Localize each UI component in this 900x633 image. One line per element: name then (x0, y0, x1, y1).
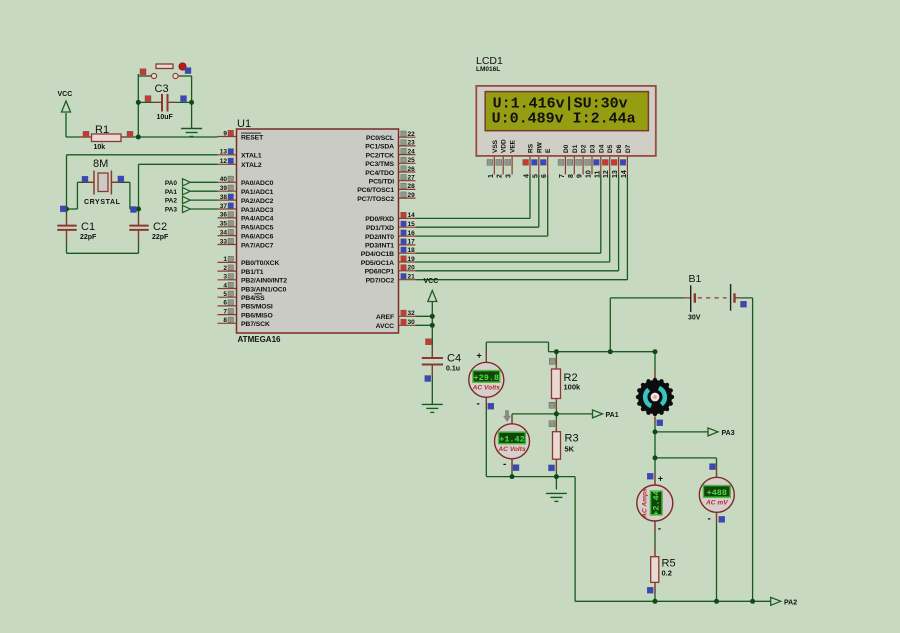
svg-text:33: 33 (220, 238, 228, 245)
svg-text:35: 35 (220, 221, 228, 228)
svg-text:24: 24 (408, 148, 416, 155)
svg-text:13: 13 (612, 170, 619, 178)
svg-text:D4: D4 (598, 144, 605, 153)
svg-text:PA3/ADC3: PA3/ADC3 (241, 207, 274, 214)
svg-text:LM016L: LM016L (476, 66, 500, 73)
svg-text:C1: C1 (81, 221, 95, 233)
svg-text:PC2/TCK: PC2/TCK (366, 152, 395, 159)
svg-text:0.1u: 0.1u (446, 366, 460, 373)
svg-text:19: 19 (408, 256, 416, 263)
svg-text:37: 37 (220, 203, 228, 210)
svg-text:PB0/T0/XCK: PB0/T0/XCK (241, 260, 279, 267)
svg-text:VCC: VCC (424, 278, 439, 285)
svg-text:+2.44: +2.44 (652, 490, 662, 516)
svg-text:PC0/SCL: PC0/SCL (366, 135, 394, 142)
svg-text:PC4/TDO: PC4/TDO (365, 170, 394, 177)
svg-text:14: 14 (408, 212, 416, 219)
svg-text:D0: D0 (563, 144, 570, 153)
svg-text:PA3: PA3 (722, 430, 735, 437)
svg-text:PB2/AIN0/INT2: PB2/AIN0/INT2 (241, 278, 287, 285)
svg-text:D2: D2 (581, 144, 588, 153)
svg-text:17: 17 (408, 239, 416, 246)
svg-text:22: 22 (408, 131, 416, 138)
svg-text:23: 23 (408, 140, 416, 147)
svg-text:10: 10 (586, 170, 593, 178)
svg-text:PB7/SCK: PB7/SCK (241, 321, 270, 328)
svg-text:PC3/TMS: PC3/TMS (365, 161, 394, 168)
svg-text:PA4/ADC4: PA4/ADC4 (241, 216, 274, 223)
svg-text:VSS: VSS (492, 139, 499, 153)
svg-text:9: 9 (577, 174, 584, 178)
svg-text:RW: RW (536, 141, 543, 153)
svg-text:VEE: VEE (510, 139, 517, 153)
svg-text:18: 18 (408, 247, 416, 254)
svg-text:PC7/TOSC2: PC7/TOSC2 (357, 196, 394, 203)
svg-text:4: 4 (524, 174, 531, 178)
svg-text:PB4/SS: PB4/SS (241, 295, 265, 302)
svg-text:1: 1 (223, 256, 227, 263)
svg-text:+: + (658, 474, 663, 484)
svg-text:AVCC: AVCC (376, 323, 395, 330)
svg-text:+488: +488 (707, 488, 727, 498)
svg-text:15: 15 (408, 221, 416, 228)
svg-text:8M: 8M (93, 158, 108, 170)
svg-text:D1: D1 (572, 144, 579, 153)
svg-text:3: 3 (223, 274, 227, 281)
svg-text:R3: R3 (565, 433, 579, 445)
svg-text:38: 38 (220, 194, 228, 201)
svg-text:-: - (503, 459, 506, 470)
svg-text:2: 2 (497, 174, 504, 178)
svg-text:PA5/ADC5: PA5/ADC5 (241, 225, 274, 232)
svg-text:PB3/AIN1/OC0: PB3/AIN1/OC0 (241, 286, 287, 293)
svg-text:0.2: 0.2 (662, 569, 672, 578)
svg-text:34: 34 (220, 229, 228, 236)
svg-text:C3: C3 (155, 83, 169, 95)
svg-text:2: 2 (223, 265, 227, 272)
svg-text:+29.8: +29.8 (474, 373, 500, 383)
svg-text:AREF: AREF (376, 314, 394, 321)
svg-text:PA1/ADC1: PA1/ADC1 (241, 189, 274, 196)
svg-text:7: 7 (559, 174, 566, 178)
svg-text:PA0/ADC0: PA0/ADC0 (241, 180, 274, 187)
svg-text:U1: U1 (237, 118, 251, 130)
svg-text:8: 8 (223, 317, 227, 324)
svg-text:5K: 5K (565, 445, 575, 454)
svg-text:VDD: VDD (501, 139, 508, 153)
svg-text:PC5/TDI: PC5/TDI (369, 179, 395, 186)
svg-text:20: 20 (408, 265, 416, 272)
svg-text:8: 8 (568, 174, 575, 178)
svg-text:26: 26 (408, 166, 416, 173)
svg-text:PD4/OC1B: PD4/OC1B (361, 251, 394, 258)
svg-text:PA2/ADC2: PA2/ADC2 (241, 198, 274, 205)
svg-text:XTAL1: XTAL1 (241, 153, 262, 160)
svg-text:PB6/MISO: PB6/MISO (241, 312, 273, 319)
svg-text:-: - (658, 524, 661, 535)
svg-text:22pF: 22pF (80, 234, 97, 241)
svg-text:PA2: PA2 (165, 198, 178, 205)
svg-text:PB1/T1: PB1/T1 (241, 269, 264, 276)
svg-text:AC Volts: AC Volts (472, 384, 501, 391)
svg-text:PD7/OC2: PD7/OC2 (366, 278, 395, 285)
svg-text:5: 5 (532, 174, 539, 178)
svg-text:39: 39 (220, 185, 228, 192)
svg-text:PD6/ICP1: PD6/ICP1 (365, 269, 395, 276)
svg-text:13: 13 (220, 149, 228, 156)
svg-text:7: 7 (223, 308, 227, 315)
svg-text:11: 11 (594, 170, 601, 178)
svg-text:R1: R1 (95, 124, 109, 136)
svg-text:+: + (477, 351, 482, 361)
svg-text:5: 5 (223, 291, 227, 298)
svg-text:C2: C2 (153, 221, 167, 233)
svg-text:VCC: VCC (58, 91, 73, 98)
svg-text:6: 6 (541, 174, 548, 178)
svg-text:27: 27 (408, 175, 416, 182)
svg-text:40: 40 (220, 176, 228, 183)
svg-text:PA1: PA1 (165, 189, 178, 196)
svg-text:6: 6 (223, 300, 227, 307)
svg-text:PA7/ADC7: PA7/ADC7 (241, 242, 274, 249)
svg-text:E: E (545, 148, 552, 153)
svg-text:PA6/ADC6: PA6/ADC6 (241, 233, 274, 240)
svg-text:16: 16 (408, 230, 416, 237)
svg-text:PC6/TOSC1: PC6/TOSC1 (357, 187, 394, 194)
svg-text:PD2/INT0: PD2/INT0 (365, 234, 394, 241)
svg-text:PD3/INT1: PD3/INT1 (365, 243, 394, 250)
svg-text:28: 28 (408, 183, 416, 190)
svg-text:PC1/SDA: PC1/SDA (365, 144, 394, 151)
svg-text:4: 4 (223, 282, 227, 289)
svg-text:32: 32 (408, 310, 416, 317)
svg-text:14: 14 (621, 170, 628, 178)
svg-text:10uF: 10uF (157, 114, 174, 121)
svg-text:21: 21 (408, 274, 416, 281)
svg-text:ATMEGA16: ATMEGA16 (238, 335, 282, 344)
svg-text:+1.42: +1.42 (499, 435, 525, 445)
svg-text:PA3: PA3 (165, 207, 178, 214)
svg-text:AC mV: AC mV (705, 499, 728, 506)
svg-text:RS: RS (528, 143, 535, 153)
svg-text:D6: D6 (616, 144, 623, 153)
svg-text:36: 36 (220, 212, 228, 219)
svg-text:CRYSTAL: CRYSTAL (84, 199, 121, 206)
svg-text:-: - (708, 514, 711, 525)
svg-text:12: 12 (603, 170, 610, 178)
svg-text:30: 30 (408, 319, 416, 326)
svg-text:PA2: PA2 (784, 599, 797, 606)
svg-text:22pF: 22pF (152, 234, 169, 241)
svg-text:PA1: PA1 (606, 412, 619, 419)
svg-text:25: 25 (408, 157, 416, 164)
svg-text:AC Amps: AC Amps (642, 488, 649, 519)
svg-text:PA0: PA0 (165, 180, 178, 187)
svg-text:B1: B1 (689, 273, 702, 285)
svg-text:100k: 100k (564, 383, 582, 392)
svg-text:PD5/OC1A: PD5/OC1A (361, 260, 394, 267)
svg-text:9: 9 (223, 130, 227, 137)
svg-text:XTAL2: XTAL2 (241, 162, 262, 169)
svg-text:PD1/TXD: PD1/TXD (366, 225, 394, 232)
svg-text:PB5/MOSI: PB5/MOSI (241, 304, 273, 311)
svg-text:29: 29 (408, 192, 416, 199)
svg-text:RESET: RESET (241, 134, 264, 141)
svg-text:-: - (477, 399, 480, 410)
svg-text:C4: C4 (447, 353, 461, 365)
svg-text:AC Volts: AC Volts (497, 446, 526, 453)
svg-text:D3: D3 (590, 144, 597, 153)
svg-text:U:0.489v I:2.44a: U:0.489v I:2.44a (492, 111, 636, 128)
svg-text:D7: D7 (625, 144, 632, 153)
svg-text:3: 3 (506, 174, 513, 178)
svg-text:30V: 30V (688, 315, 701, 322)
svg-text:1: 1 (488, 174, 495, 178)
svg-text:12: 12 (220, 158, 228, 165)
svg-text:D5: D5 (607, 144, 614, 153)
svg-text:10k: 10k (94, 144, 106, 151)
svg-text:PD0/RXD: PD0/RXD (365, 216, 394, 223)
